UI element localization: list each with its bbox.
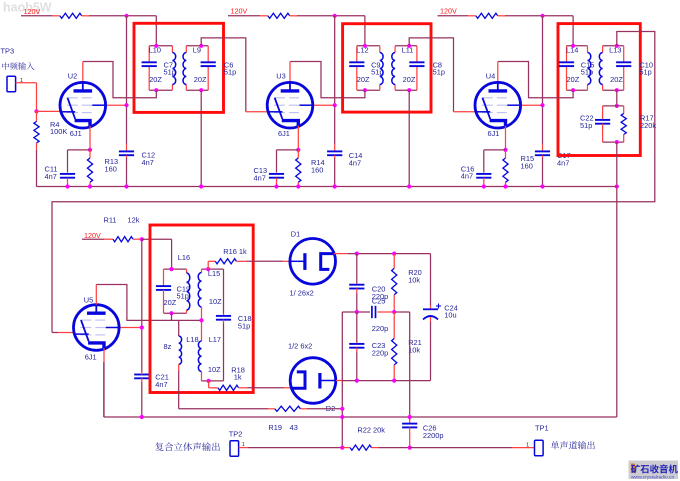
wire L11 bottom to ground bbox=[408, 90, 410, 186]
wire bbox=[171, 313, 173, 320]
inductor L14 bbox=[587, 46, 589, 53]
node bbox=[340, 446, 344, 450]
wire lower ground bus bbox=[104, 416, 617, 418]
capacitor C15 bbox=[566, 46, 568, 62]
wire bbox=[297, 15, 365, 17]
decorative logo bbox=[629, 461, 679, 480]
svg-text:C25: C25 bbox=[372, 296, 386, 305]
node screen U2 bbox=[124, 103, 128, 107]
capacitor C18 bbox=[223, 269, 225, 314]
node top of L10 bbox=[154, 44, 158, 48]
wire R19 line bbox=[179, 408, 268, 410]
capacitor C7 bbox=[148, 46, 150, 62]
wire bbox=[395, 45, 417, 47]
node grid U2 bbox=[34, 109, 38, 113]
IF input label bbox=[2, 62, 34, 70]
svg-text:1: 1 bbox=[526, 443, 529, 449]
svg-text:160: 160 bbox=[311, 166, 323, 175]
capacitor C17 bbox=[542, 144, 544, 151]
svg-text:20Z: 20Z bbox=[357, 75, 370, 84]
node rail junction 2 bbox=[333, 14, 337, 18]
connector TP1 bbox=[535, 440, 544, 456]
node ground junction bbox=[503, 184, 507, 188]
svg-text:6J1: 6J1 bbox=[70, 129, 82, 138]
resistor R20 bbox=[393, 254, 395, 269]
svg-text:120V: 120V bbox=[231, 7, 248, 16]
op-amp U4 (tube 6J1) bbox=[475, 82, 521, 128]
node ground tie bbox=[615, 184, 619, 188]
svg-text:4n7: 4n7 bbox=[461, 172, 473, 181]
resistor R15 bbox=[505, 150, 507, 158]
svg-text:1/2 6x2: 1/2 6x2 bbox=[288, 341, 312, 350]
node bottom of L11 bbox=[407, 88, 411, 92]
wire middle rail bbox=[342, 311, 370, 313]
node bbox=[340, 407, 344, 411]
wire L13 top to detector bbox=[52, 32, 655, 333]
wire detector dc return bbox=[616, 142, 618, 417]
capacitor C13 bbox=[277, 149, 299, 151]
svg-text:4n7: 4n7 bbox=[142, 158, 154, 167]
capacitor C24 bbox=[430, 254, 432, 305]
wire screen stub U3 bbox=[313, 104, 335, 106]
inductor L10 bbox=[171, 46, 173, 53]
svg-text:51p: 51p bbox=[177, 292, 189, 301]
svg-text:100K: 100K bbox=[50, 127, 67, 136]
resistor R4 bbox=[36, 111, 38, 121]
svg-text:10Z: 10Z bbox=[208, 365, 221, 374]
resistor R22 bbox=[342, 447, 350, 449]
wire screen stub U4 bbox=[521, 104, 543, 106]
node top of L16 bbox=[169, 267, 173, 271]
node bottom of L10 bbox=[154, 88, 158, 92]
svg-text:U2: U2 bbox=[68, 71, 77, 80]
node ground junction bbox=[65, 184, 69, 188]
node top of L12 bbox=[363, 44, 367, 48]
node ground junction bbox=[407, 184, 411, 188]
svg-text:U4: U4 bbox=[486, 71, 495, 80]
wire de-emphasis right drop bbox=[409, 312, 411, 420]
node bbox=[355, 310, 359, 314]
resistor (rail dropper 3) bbox=[468, 15, 476, 17]
wire screen feed 2 bbox=[334, 16, 336, 144]
highlight box IFT3 bbox=[558, 24, 640, 156]
mono output label bbox=[551, 441, 595, 449]
wire screen stub U2 bbox=[106, 104, 127, 106]
svg-text:4n7: 4n7 bbox=[349, 159, 361, 168]
svg-text:4n7: 4n7 bbox=[254, 174, 266, 183]
capacitor C26 bbox=[409, 420, 411, 424]
resistor R14 bbox=[297, 150, 299, 158]
svg-text:10u: 10u bbox=[444, 311, 456, 320]
wire bbox=[505, 15, 573, 17]
resistor R17 bbox=[623, 106, 625, 114]
node bbox=[392, 310, 396, 314]
node ground junction bbox=[540, 184, 544, 188]
svg-text:6J1: 6J1 bbox=[278, 129, 290, 138]
inductor L17 bbox=[201, 320, 203, 341]
svg-text:L18: L18 bbox=[186, 335, 198, 344]
svg-text:6J1: 6J1 bbox=[488, 129, 500, 138]
node screen U3 bbox=[333, 103, 337, 107]
svg-text:6J1: 6J1 bbox=[85, 353, 97, 362]
svg-text:U3: U3 bbox=[276, 71, 285, 80]
capacitor C11 bbox=[68, 149, 91, 151]
svg-text:U5: U5 bbox=[84, 295, 93, 304]
wire to U2 grid bbox=[37, 110, 61, 112]
inductor L12 bbox=[379, 46, 381, 53]
svg-text:R16 1k: R16 1k bbox=[223, 247, 247, 256]
node top of C22/R17 bbox=[615, 104, 619, 108]
wire to L12 top bbox=[364, 16, 366, 46]
stereo output label bbox=[155, 442, 220, 451]
inductor L18 bbox=[178, 320, 180, 336]
wire to TP1 bbox=[410, 447, 512, 449]
wire bbox=[357, 45, 380, 47]
wire L9 top to U3 grid bbox=[201, 38, 246, 112]
wire to L16 top bbox=[142, 238, 172, 240]
highlight box detector bbox=[150, 225, 253, 393]
svg-text:43: 43 bbox=[290, 423, 298, 432]
node top of L13 bbox=[615, 44, 619, 48]
node bbox=[340, 415, 344, 419]
wire bbox=[379, 447, 410, 449]
wire bbox=[603, 141, 624, 143]
wire bbox=[202, 380, 224, 382]
svg-text:20Z: 20Z bbox=[149, 75, 162, 84]
svg-text:L15: L15 bbox=[208, 269, 220, 278]
wire 120V rail stage2 bbox=[228, 15, 260, 17]
wire D1 cathode out bbox=[334, 253, 348, 255]
wire screen feed 3 bbox=[542, 16, 544, 144]
node bottom of L16 bbox=[169, 311, 173, 315]
node bbox=[392, 379, 396, 383]
node screen U4 bbox=[540, 103, 544, 107]
svg-text:51p: 51p bbox=[238, 321, 250, 330]
capacitor C16 bbox=[484, 149, 506, 151]
node bottom of L9 bbox=[199, 88, 203, 92]
wire to L10 top bbox=[155, 16, 157, 46]
svg-text:4n7: 4n7 bbox=[45, 172, 57, 181]
resistor R18 bbox=[208, 381, 210, 388]
capacitor C9 bbox=[356, 46, 358, 62]
capacitor C12 bbox=[126, 144, 128, 151]
capacitor C20 bbox=[356, 254, 358, 283]
svg-text:4n7: 4n7 bbox=[557, 159, 569, 168]
svg-text:120V: 120V bbox=[440, 7, 457, 16]
node R11 output bbox=[140, 237, 144, 241]
svg-text:2200p: 2200p bbox=[423, 431, 444, 440]
resistor R19 bbox=[268, 408, 275, 410]
svg-text:20Z: 20Z bbox=[194, 75, 207, 84]
svg-text:R11: R11 bbox=[104, 216, 117, 225]
capacitor C6 bbox=[207, 46, 209, 62]
svg-text:20Z: 20Z bbox=[610, 75, 623, 84]
node L15/L17 junction bbox=[199, 318, 203, 322]
wire 120V rail stage3 bbox=[438, 15, 469, 17]
capacitor C25 bbox=[371, 306, 373, 318]
capacitor C10 bbox=[623, 46, 625, 62]
svg-text:120V: 120V bbox=[24, 7, 41, 16]
svg-text:TP3: TP3 bbox=[1, 47, 15, 56]
wire R16 to D1 bbox=[247, 260, 284, 262]
wire ground bus bbox=[37, 186, 617, 188]
svg-text:51p: 51p bbox=[639, 68, 651, 77]
resistor R13 bbox=[89, 150, 91, 158]
wire bbox=[603, 45, 624, 47]
wire U4 cathode bbox=[505, 126, 507, 150]
node rail junction 1 bbox=[124, 14, 128, 18]
node junction C18/R18 bbox=[207, 379, 211, 383]
svg-text:R22 20k: R22 20k bbox=[357, 426, 385, 435]
node top of L15 bbox=[206, 267, 210, 271]
node bbox=[392, 252, 396, 256]
node bottom of L14 bbox=[571, 88, 575, 92]
wire bbox=[567, 45, 588, 47]
wire bbox=[89, 15, 156, 17]
wire L13 bottom bbox=[616, 90, 618, 106]
wire TP3 pin bbox=[16, 82, 37, 84]
node top of L11 bbox=[407, 44, 411, 48]
wire 120V rail stage1 bbox=[21, 15, 53, 17]
svg-text:8z: 8z bbox=[164, 342, 172, 351]
node cathode U2 bbox=[88, 148, 92, 152]
node bbox=[355, 252, 359, 256]
svg-text:L16: L16 bbox=[178, 253, 190, 262]
wire TP2 to R22 bbox=[239, 447, 248, 449]
wire bottom rail bbox=[342, 380, 430, 382]
svg-text:12k: 12k bbox=[128, 216, 140, 225]
svg-text:10k: 10k bbox=[408, 275, 420, 284]
svg-text:20Z: 20Z bbox=[567, 75, 580, 84]
svg-text:20Z: 20Z bbox=[403, 75, 416, 84]
node ground junction bbox=[124, 184, 128, 188]
svg-text:220p: 220p bbox=[372, 324, 388, 333]
node top of L9 bbox=[199, 44, 203, 48]
node ground junction bbox=[88, 184, 92, 188]
node ground junction bbox=[333, 184, 337, 188]
svg-text:R19: R19 bbox=[268, 423, 282, 432]
wire bbox=[307, 408, 342, 410]
node top of L14 bbox=[571, 44, 575, 48]
node ground junction bbox=[199, 184, 203, 188]
node ground junction bbox=[274, 184, 278, 188]
wire screen feed U5 bbox=[141, 239, 143, 371]
svg-text:1/ 26x2: 1/ 26x2 bbox=[290, 288, 314, 297]
resistor (rail dropper 2) bbox=[260, 15, 268, 17]
svg-text:D1: D1 bbox=[291, 229, 300, 238]
svg-text:4n7: 4n7 bbox=[155, 380, 167, 389]
wire screen feed 1 bbox=[126, 16, 128, 144]
resistor R21 bbox=[393, 312, 395, 339]
node bottom of L13 bbox=[615, 88, 619, 92]
wire bbox=[53, 15, 60, 17]
svg-text:51p: 51p bbox=[580, 121, 592, 130]
inductor L15 bbox=[201, 269, 203, 272]
diode D2 (tube 1/2 6x2) bbox=[290, 358, 336, 404]
wire bbox=[202, 268, 224, 270]
capacitor C19 bbox=[163, 269, 165, 286]
wire U3 cathode bbox=[297, 126, 299, 150]
wire screen stub U5 bbox=[119, 327, 142, 329]
inductor L13 bbox=[602, 46, 604, 53]
node bottom of C22/R17 bbox=[615, 140, 619, 144]
svg-text:20Z: 20Z bbox=[164, 298, 177, 307]
node ground junction bbox=[482, 184, 486, 188]
capacitor C22 bbox=[602, 106, 604, 120]
wire R18 to D2 bbox=[247, 387, 284, 389]
inductor L9 bbox=[185, 46, 187, 53]
wire U5 cathode bbox=[103, 348, 105, 362]
connector TP2 bbox=[230, 441, 239, 457]
wire bbox=[603, 105, 624, 107]
diode D1 (tube 1/2 6x2) bbox=[290, 238, 336, 284]
op-amp U3 (tube 6J1) bbox=[267, 82, 313, 128]
node ground junction bbox=[296, 184, 300, 188]
wire U5 plate bbox=[95, 285, 97, 305]
node screen U5 bbox=[140, 325, 144, 329]
capacitor C21 bbox=[134, 374, 149, 376]
node bbox=[408, 415, 412, 419]
wire to L14 top bbox=[572, 16, 574, 46]
svg-text:1k: 1k bbox=[234, 373, 242, 382]
resistor R16 bbox=[207, 261, 209, 269]
node bbox=[408, 446, 412, 450]
node bbox=[355, 379, 359, 383]
highlight box IFT1 bbox=[134, 23, 224, 112]
node bottom of L12 bbox=[363, 88, 367, 92]
connector TP3 bbox=[7, 76, 16, 92]
wire U2 cathode bbox=[89, 126, 91, 150]
svg-text:www.crystalradio.cn: www.crystalradio.cn bbox=[631, 475, 674, 481]
wire bbox=[186, 45, 208, 47]
highlight box IFT2 bbox=[343, 24, 431, 112]
node rail junction 3 bbox=[540, 14, 544, 18]
wire D2 plate out bbox=[336, 380, 342, 382]
capacitor C14 bbox=[334, 144, 336, 151]
wire L10 bottom to U2 plate bbox=[83, 62, 156, 98]
resistor (rail dropper 1) bbox=[60, 13, 82, 18]
svg-text:TP1: TP1 bbox=[535, 424, 549, 433]
svg-text:51p: 51p bbox=[224, 68, 236, 77]
wire L9 bottom to ground bbox=[200, 90, 202, 186]
wire L14 bottom to U4 plate bbox=[498, 62, 573, 98]
wire bbox=[149, 45, 172, 47]
op-amp U2 (tube 6J1) bbox=[60, 82, 106, 128]
svg-text:160: 160 bbox=[105, 165, 117, 174]
node bbox=[140, 415, 144, 419]
inductor L11 bbox=[394, 46, 396, 53]
capacitor C8 bbox=[416, 46, 418, 62]
svg-text:51p: 51p bbox=[433, 68, 445, 77]
svg-text:220k: 220k bbox=[640, 121, 656, 130]
wire bbox=[164, 268, 187, 270]
svg-text:TP2: TP2 bbox=[229, 430, 243, 439]
wire de-emphasis left drop bbox=[341, 312, 343, 448]
svg-text:160: 160 bbox=[521, 162, 533, 171]
svg-text:220p: 220p bbox=[372, 348, 388, 357]
wire L12 bottom to U3 plate bbox=[290, 62, 365, 98]
svg-text:L17: L17 bbox=[209, 335, 221, 344]
node cathode U3 bbox=[296, 148, 300, 152]
capacitor C23 bbox=[356, 312, 358, 342]
resistor R11 bbox=[82, 238, 104, 240]
op-amp U5 (tube 6J1) bbox=[74, 305, 120, 351]
node cathode U4 bbox=[503, 148, 507, 152]
svg-text:10Z: 10Z bbox=[209, 297, 222, 306]
wire L11 top to U4 grid bbox=[409, 38, 453, 112]
inductor L16 bbox=[186, 269, 188, 273]
